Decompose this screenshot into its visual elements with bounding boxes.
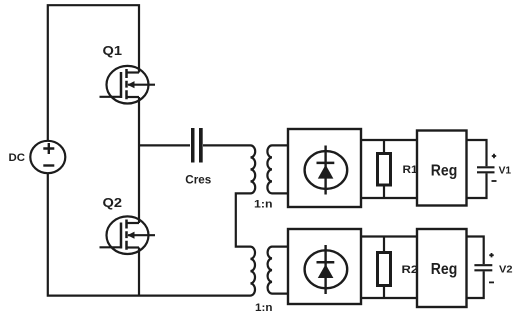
svg-text:1:n: 1:n <box>254 199 273 211</box>
svg-text:R2: R2 <box>402 264 419 276</box>
svg-text:DC: DC <box>9 152 26 164</box>
svg-text:Reg: Reg <box>431 261 458 278</box>
svg-text:V2: V2 <box>499 264 513 276</box>
svg-text:Reg: Reg <box>431 162 458 179</box>
svg-text:Q1: Q1 <box>103 43 123 58</box>
svg-text:1:n: 1:n <box>255 302 273 314</box>
svg-text:V1: V1 <box>499 164 512 176</box>
svg-text:Cres: Cres <box>185 173 211 187</box>
svg-text:Q2: Q2 <box>103 195 123 210</box>
svg-text:R1: R1 <box>403 164 418 176</box>
